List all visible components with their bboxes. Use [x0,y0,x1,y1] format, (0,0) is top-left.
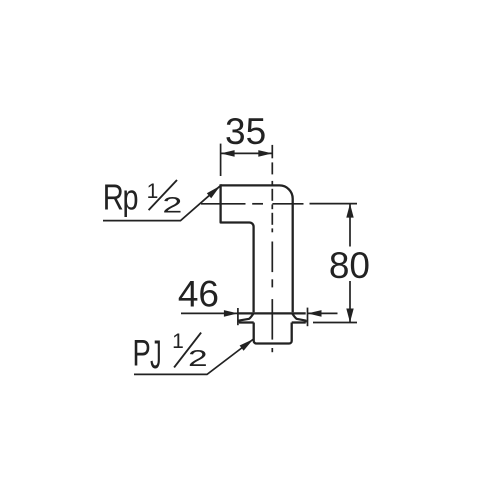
dimension 80: extension line bottom [313,322,357,324]
dimension 35: left arrowhead [221,150,235,157]
fitting body outline [221,184,293,312]
dimension 46: left arrowhead [224,310,238,317]
flange right skirt [292,313,306,322]
leader PJ arrowhead [240,339,254,351]
dimension 46: extension line right [307,308,309,327]
dimension 46: extension line left [237,308,239,325]
svg-text:46: 46 [178,273,219,314]
bottom tube [254,323,292,344]
dimension 35: dimension line [221,152,273,154]
svg-text:p: p [122,177,138,218]
svg-text:J: J [150,333,161,377]
leader line PJ 1/2 [134,339,254,374]
label PJ fraction slash [174,333,201,368]
label Rp fraction slash [149,180,177,210]
flange left skirt [239,313,254,322]
svg-text:P: P [132,333,150,374]
dimension 35: right arrowhead [258,150,272,157]
svg-text:2: 2 [162,193,182,217]
flange top edge [238,312,306,314]
dimension 46: right dimension line [308,312,338,314]
flange bottom right edge [292,321,306,323]
leader line Rp 1/2 [103,186,220,221]
svg-text:1: 1 [147,180,159,203]
horizontal centerline [201,203,304,205]
svg-text:R: R [103,177,124,218]
dimension 80: bottom arrowhead [346,309,353,323]
dimension 46: left dimension line [181,312,238,314]
svg-text:1: 1 [172,330,184,353]
dimension 80: dimension line upper [349,205,351,247]
dimension 80: top arrowhead [346,204,353,218]
flange bottom left edge [239,321,254,323]
dimension 35: extension line left [220,144,222,176]
dimension 80: dimension line lower [349,281,351,322]
leader Rp arrowhead [207,186,221,198]
dimension 46: right arrowhead [308,310,322,317]
svg-text:35: 35 [225,111,266,152]
vertical centerline [271,145,273,352]
dimension 80: extension line top [310,203,358,205]
svg-text:2: 2 [188,346,208,371]
svg-text:80: 80 [329,245,370,286]
